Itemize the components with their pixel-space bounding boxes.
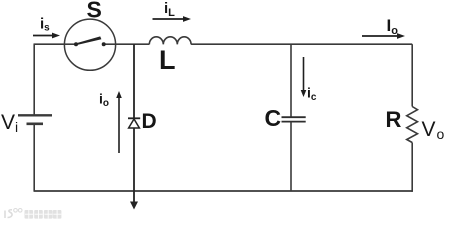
wire: bottom rail: [34, 190, 413, 192]
wire: right vertical, corner to resistor: [411, 44, 413, 106]
wire: top rail, inductor to output corner: [191, 43, 412, 45]
svg-text:is: is: [40, 16, 50, 34]
label Vo: [422, 118, 445, 142]
wire: diode branch, top node down to diode: [133, 44, 135, 118]
current arrow i_s: [33, 16, 60, 39]
current arrow Io: [362, 16, 405, 39]
label Vi: [1, 111, 18, 135]
switch S (SPST switch in circle): [64, 19, 115, 70]
arrow: diode branch continues below rail (downward arrow): [130, 191, 138, 210]
current arrow i_o: [99, 91, 122, 154]
svg-text:D: D: [142, 110, 157, 133]
svg-text:S: S: [87, 0, 102, 23]
svg-text:C: C: [265, 105, 282, 131]
current arrow i_L: [153, 0, 192, 22]
wire: left vertical, top rail to battery: [33, 44, 35, 114]
current arrow i_c: [301, 57, 317, 103]
wire: left vertical, battery to bottom rail: [33, 125, 35, 192]
wire: top rail, switch to diode node: [115, 43, 149, 45]
wire: capacitor branch, top rail down to capacitor: [290, 44, 292, 117]
label S: [87, 0, 102, 23]
svg-text:L: L: [159, 45, 176, 75]
wire: capacitor branch, capacitor to bottom rail: [290, 122, 292, 191]
capacitor C: [282, 117, 306, 121]
label C: [265, 105, 282, 131]
wire: right vertical, resistor to bottom rail: [411, 143, 413, 192]
watermark: site logo and chinese text: [5, 209, 61, 219]
svg-text:iL: iL: [164, 0, 175, 19]
wire: diode branch, diode to bottom rail: [133, 128, 135, 191]
wire: top rail, source to switch: [34, 43, 65, 45]
label L: [159, 45, 176, 75]
diode D: [128, 118, 140, 128]
battery Vi (voltage source): [18, 115, 52, 124]
svg-text:R: R: [386, 107, 402, 132]
inductor L: [149, 37, 191, 45]
svg-text:Vo: Vo: [422, 118, 445, 142]
svg-text:Io: Io: [387, 16, 399, 37]
svg-text:Vi: Vi: [1, 111, 18, 135]
svg-text:ic: ic: [307, 85, 317, 104]
label R: [386, 107, 402, 132]
label D: [142, 110, 157, 133]
svg-text:io: io: [99, 91, 109, 110]
resistor R: [407, 107, 418, 143]
